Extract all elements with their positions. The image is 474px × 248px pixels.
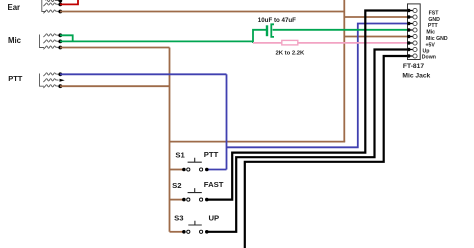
capacitor C1 left plate: [266, 25, 268, 36]
svg-text:Mic Jack: Mic Jack: [402, 73, 430, 80]
wire green cap to Mic pin: [273, 29, 409, 31]
switch S1: [175, 150, 218, 171]
wire blue PTT tip horizontal: [60, 73, 227, 75]
svg-text:Mic: Mic: [8, 36, 22, 45]
jack J3 PTT: [40, 73, 59, 88]
wire brown Ear sleeve to ground vertical: [60, 11, 344, 13]
svg-text:S1: S1: [175, 150, 185, 159]
connector J4 pin 1: [409, 8, 417, 58]
wire brown ground vertical: [343, 0, 345, 142]
switch S3: [174, 213, 219, 233]
svg-text:10uF to 47uF: 10uF to 47uF: [258, 17, 296, 24]
svg-text:FST: FST: [429, 11, 440, 17]
wire red Ear tip up to top edge: [60, 0, 78, 4]
wire brown stub to S3: [170, 231, 184, 233]
wire brown to Mic GND pin: [344, 36, 409, 38]
wire pink junction to resistor: [253, 42, 282, 44]
wire brown stub to S2: [170, 199, 184, 201]
capacitor C1 right plate: [271, 24, 274, 37]
wire blue to S1 terminal: [207, 169, 227, 171]
jack J1 Ear (cropped at top edge): [42, 0, 59, 13]
svg-text:S3: S3: [174, 213, 183, 222]
jack J2 Mic: [40, 34, 59, 50]
svg-text:FAST: FAST: [204, 180, 224, 189]
wire pink resistor to +5V pin: [298, 42, 409, 44]
jack J2 contact dots: [58, 33, 62, 37]
svg-text:Up: Up: [423, 48, 430, 54]
svg-text:Ear: Ear: [8, 3, 21, 12]
jack J3 contact dots: [58, 72, 62, 76]
wire brown switch rail vertical: [169, 48, 171, 232]
wire black Down pin to bottom edge: [245, 56, 409, 248]
wire black S3 to Up pin: [207, 50, 409, 232]
wire green Mic ring horizontal: [60, 40, 253, 42]
svg-text:S2: S2: [172, 181, 181, 190]
svg-text:FT-817: FT-817: [403, 63, 424, 70]
connector J4 wire end dots: [407, 9, 410, 58]
wire brown stub to S1: [170, 169, 184, 171]
wire brown ground bottom horizontal: [170, 141, 346, 143]
connector J4 FT-817 body: [408, 4, 421, 60]
wire green junction vertical to cap: [253, 30, 266, 43]
svg-text:PTT: PTT: [204, 150, 219, 159]
svg-text:UP: UP: [209, 213, 220, 222]
resistor R1: [282, 40, 298, 45]
svg-text:Mic GND: Mic GND: [426, 36, 448, 42]
svg-text:PTT: PTT: [8, 74, 23, 83]
wire blue branch to PTT pin: [227, 24, 410, 148]
svg-text:Down: Down: [422, 55, 436, 61]
wire black S2 to FST pin: [207, 11, 409, 200]
wire brown to GND pin: [344, 16, 409, 18]
svg-text:2K to 2.2K: 2K to 2.2K: [276, 51, 306, 57]
svg-text:PTT: PTT: [428, 23, 439, 29]
wire green Mic tip jog: [60, 35, 73, 41]
svg-text:Mic: Mic: [426, 30, 435, 36]
wire brown Mic sleeve: [60, 47, 170, 49]
switch S2: [172, 180, 224, 201]
wire brown PTT sleeve: [60, 85, 170, 87]
jack J1 contact dots: [58, 0, 62, 3]
wire blue vertical down to S1: [226, 74, 228, 169]
